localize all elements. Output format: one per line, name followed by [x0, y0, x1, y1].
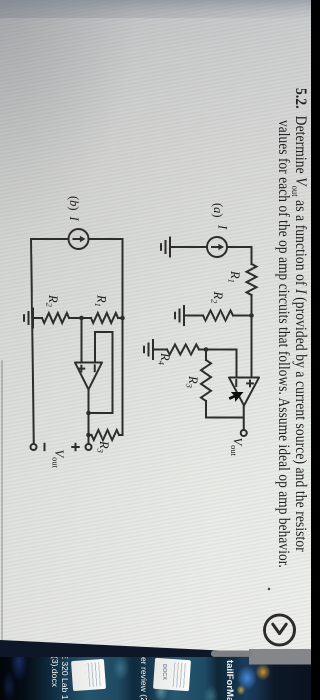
svg-text:R2: R2	[210, 291, 226, 305]
svg-text:R1: R1	[227, 270, 243, 283]
svg-text:R2: R2	[45, 294, 61, 308]
svg-text:R3: R3	[185, 375, 201, 388]
svg-text:I: I	[216, 224, 230, 230]
svg-text:Vout: Vout	[51, 450, 67, 469]
svg-text:Vout: Vout	[229, 438, 245, 457]
svg-text:I: I	[67, 216, 81, 222]
svg-text:(b): (b)	[67, 196, 81, 211]
svg-text:R1: R1	[93, 294, 109, 307]
svg-text:R3: R3	[96, 440, 112, 453]
svg-text:(a): (a)	[211, 203, 225, 218]
svg-text:R4: R4	[157, 352, 173, 366]
